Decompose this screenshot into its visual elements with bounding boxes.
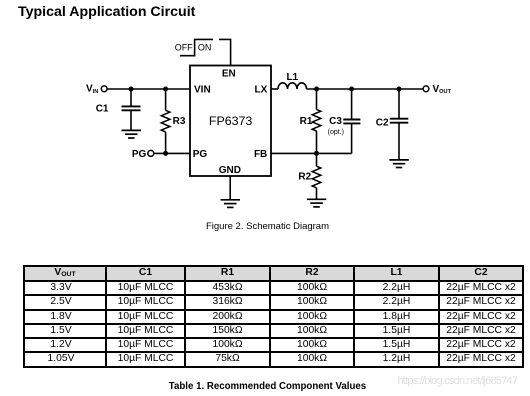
svg-text:VIN: VIN: [86, 84, 98, 95]
title: [18, 4, 195, 20]
svg-text:R2: R2: [298, 172, 311, 183]
capacitor C2: [376, 89, 408, 160]
ground for C2: [389, 160, 409, 168]
svg-text:PG: PG: [193, 149, 208, 160]
node PG terminal: [132, 149, 154, 160]
junction R3 tap: [163, 87, 168, 92]
svg-text:LX: LX: [255, 84, 268, 95]
capacitor C3 (opt.): [328, 89, 361, 153]
wire LX to L1: [271, 88, 278, 90]
wire FB rail: [271, 152, 352, 154]
table caption: [0, 381, 530, 392]
junction C1 tap: [129, 87, 134, 92]
junction C2 tap: [397, 87, 402, 92]
svg-text:ON: ON: [198, 43, 212, 53]
svg-text:EN: EN: [222, 69, 236, 80]
wire PG to pin: [154, 152, 190, 154]
ground for GND pin: [221, 200, 241, 208]
inductor L1: [278, 72, 307, 89]
junction R1/R2/FB: [314, 151, 319, 156]
svg-text:PG: PG: [132, 149, 147, 160]
resistor R3: [161, 89, 186, 153]
svg-text:VIN: VIN: [194, 84, 211, 95]
wire output rail: [307, 88, 424, 90]
svg-text:R3: R3: [173, 116, 186, 127]
junction R1 tap: [314, 87, 319, 92]
capacitor C1: [96, 89, 141, 130]
svg-text:L1: L1: [286, 72, 298, 83]
wire VIN rail: [107, 88, 190, 90]
junction R3/PG: [163, 151, 168, 156]
svg-text:FB: FB: [254, 149, 267, 160]
ground for C1: [122, 130, 142, 138]
node VIN input terminal: [86, 84, 107, 95]
ground for R2: [307, 199, 327, 207]
svg-text:OFF: OFF: [175, 43, 193, 53]
svg-text:C1: C1: [96, 104, 109, 115]
svg-text:(opt.): (opt.): [328, 129, 344, 136]
svg-text:R1: R1: [300, 116, 313, 127]
node VOUT output terminal: [423, 84, 451, 95]
svg-text:C3: C3: [329, 116, 342, 127]
svg-text:C2: C2: [376, 117, 389, 128]
resistor R2: [298, 153, 320, 199]
IC U1 FP6373: [190, 66, 271, 177]
junction C3 tap: [349, 87, 354, 92]
figure caption: [0, 221, 530, 232]
svg-text:VOUT: VOUT: [433, 84, 452, 95]
table of recommended component values: [23, 265, 524, 368]
svg-text:FP6373: FP6373: [209, 114, 253, 128]
resistor R1: [300, 89, 321, 153]
watermark: [398, 375, 518, 387]
wire GND pin: [229, 176, 231, 200]
switch OFF/ON: [175, 39, 231, 65]
svg-text:GND: GND: [219, 165, 241, 176]
